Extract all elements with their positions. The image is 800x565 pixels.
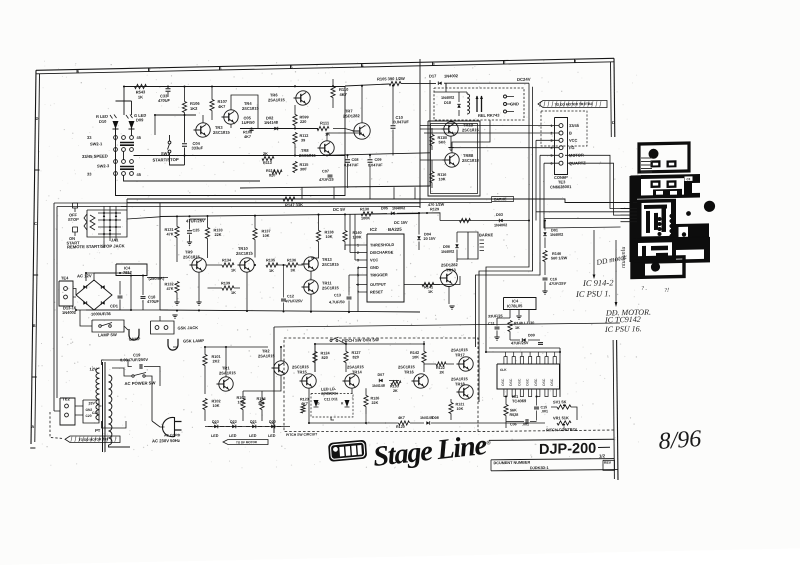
svg-text:1K: 1K	[428, 290, 433, 294]
svg-text:PITCH SW CIRCUIT: PITCH SW CIRCUIT	[286, 432, 318, 437]
svg-text:0.047UF: 0.047UF	[394, 119, 410, 124]
svg-text:SW1: SW1	[161, 151, 170, 156]
svg-text:R114: R114	[266, 169, 276, 173]
transistor TR10 2SC1815	[240, 258, 254, 273]
svg-text:333uF: 333uF	[192, 145, 204, 150]
svg-text:A: A	[31, 424, 34, 429]
svg-text:10K: 10K	[238, 400, 245, 404]
jack spring contact	[84, 214, 87, 230]
svg-text:1N4002: 1N4002	[392, 206, 405, 210]
resistor R131 47K	[175, 226, 179, 237]
wire mid rail y128	[240, 127, 318, 130]
svg-text:C07: C07	[322, 169, 329, 173]
wires into TE3 pins	[420, 123, 559, 129]
resistor R124 820	[313, 351, 317, 362]
led D11 G	[314, 400, 319, 407]
svg-text:TR17: TR17	[455, 352, 466, 357]
svg-text:DC24V: DC24V	[517, 77, 531, 82]
capacitor C33 470UF	[166, 88, 171, 90]
wire x430 column	[429, 80, 431, 186]
resistor R107 4K7	[210, 99, 214, 110]
pcb pads second band	[651, 180, 661, 188]
svg-text:D22: D22	[230, 420, 237, 424]
LED row D23 D22 D21 D20	[205, 425, 290, 429]
svg-text:GSK JACK: GSK JACK	[178, 325, 199, 330]
svg-text:R134: R134	[222, 258, 232, 262]
connector TE4 body	[59, 281, 73, 307]
svg-text:0.047UF: 0.047UF	[344, 163, 359, 167]
svg-text:47K: 47K	[167, 287, 174, 291]
svg-text:GND: GND	[370, 265, 379, 270]
svg-text:1K2: 1K2	[190, 106, 198, 111]
svg-text:47UF/25V: 47UF/25V	[511, 340, 529, 345]
resistor R103 10K	[241, 398, 245, 409]
wires TE2	[75, 405, 83, 407]
svg-text:TR14: TR14	[352, 369, 363, 374]
resistor R115 300	[293, 161, 297, 172]
pcb label c3 white	[685, 176, 693, 181]
dashed box around connector labels	[541, 110, 587, 147]
resistor R141 1K	[422, 282, 434, 287]
diode D08 1N4148	[426, 421, 429, 424]
transistor TR4 top right of TR3	[224, 110, 238, 125]
pcb blob top frame	[639, 143, 689, 172]
capacitor C15 .001	[534, 406, 539, 408]
svg-text:12V: 12V	[89, 366, 96, 371]
svg-text:OSC: OSC	[534, 378, 538, 386]
svg-text:2SA1015: 2SA1015	[268, 97, 285, 102]
svg-text:4: 4	[551, 146, 553, 150]
transistor TR8B 2SC1818	[445, 153, 459, 168]
svg-text:CLK: CLK	[500, 368, 507, 372]
dashed wire to motor banner	[50, 412, 64, 439]
svg-text:R120: R120	[396, 425, 405, 429]
wire bundle to pcb lines	[536, 210, 621, 214]
IC1 TC4069 box	[497, 363, 560, 391]
wire TR2 transistor	[274, 361, 288, 376]
svg-text:C06: C06	[510, 422, 517, 426]
svg-text:R136: R136	[287, 258, 296, 262]
svg-text:C13: C13	[334, 293, 341, 297]
svg-text:4K7: 4K7	[218, 104, 226, 109]
svg-text:IC78L05: IC78L05	[507, 303, 523, 308]
wire speed row to right	[134, 151, 346, 160]
resistor R139 1K	[222, 286, 234, 291]
wire TR8B collector to box	[452, 120, 490, 153]
svg-text:100K: 100K	[361, 216, 370, 220]
wire out of IC4 to right	[147, 276, 168, 279]
resistor R134 1K	[222, 263, 234, 268]
svg-text:C09: C09	[375, 158, 382, 162]
svg-text:DJP-200: DJP-200	[539, 441, 596, 458]
pcb right notch second band	[692, 183, 700, 193]
border frame left inner	[35, 74, 40, 442]
relay terminals	[504, 95, 507, 98]
transistor TR17 2SA1015	[459, 357, 473, 372]
transistor TR18 2SA1015	[459, 385, 473, 400]
svg-text:TE4: TE4	[61, 275, 69, 280]
resistor R543	[135, 84, 147, 89]
pcb via column	[669, 214, 673, 218]
svg-text:R528: R528	[510, 413, 519, 417]
svg-text:2SC1815: 2SC1815	[242, 106, 259, 111]
resistor R127 820	[344, 351, 348, 362]
svg-text:REL RK743: REL RK743	[478, 113, 500, 118]
transistor TR8 2SC1815	[320, 141, 334, 156]
svg-text:3K: 3K	[291, 268, 296, 272]
wire ground rail y310	[76, 308, 168, 312]
svg-text:CD1: CD1	[110, 303, 119, 308]
svg-text:AC CORD: AC CORD	[164, 433, 181, 437]
svg-text:R127: R127	[352, 351, 361, 355]
svg-text:LED: LED	[229, 434, 237, 438]
switch SW1 start/stop	[168, 141, 171, 144]
svg-text:TR15: TR15	[297, 369, 308, 374]
Stage Line logo icon	[328, 440, 367, 462]
svg-text:2SC1815: 2SC1815	[213, 130, 230, 135]
svg-text:R121: R121	[456, 402, 465, 406]
pcb feed lines from schematic	[544, 218, 621, 228]
svg-text:DCUMENT NUMBER: DCUMENT NUMBER	[493, 461, 530, 466]
resistor R116 10K	[430, 171, 434, 182]
wire top rail of start block	[124, 82, 345, 91]
svg-text:IC2: IC2	[370, 227, 377, 232]
svg-text:R111: R111	[320, 120, 330, 125]
svg-text:2SC1815: 2SC1815	[322, 262, 339, 267]
capacitor C04 333uF	[182, 143, 187, 145]
svg-text:1UF/50: 1UF/50	[242, 120, 256, 125]
transformer secondary coil	[109, 375, 112, 445]
svg-text:4K7: 4K7	[398, 416, 405, 420]
svg-text:1K: 1K	[138, 94, 143, 99]
wire bundle staircase	[486, 199, 529, 352]
svg-text:R129: R129	[430, 207, 439, 211]
svg-text:LED: LED	[268, 434, 276, 438]
title dash right	[598, 446, 610, 448]
wire bottom rail y188	[240, 184, 430, 190]
pcb trace fan top-left	[641, 157, 652, 159]
diode D07 1N4148	[379, 379, 382, 382]
svg-text:2K: 2K	[263, 152, 268, 156]
junction dots on rails	[123, 85, 125, 87]
svg-text:D08: D08	[432, 416, 439, 420]
svg-text:2: 2	[503, 61, 505, 65]
svg-text:.001: .001	[522, 422, 529, 426]
svg-text:5: 5	[551, 154, 553, 158]
resistor R132 47K	[175, 281, 179, 292]
svg-text:JA1: JA1	[111, 237, 119, 242]
GSK LAMP symbol	[168, 339, 178, 350]
svg-text:1N4002: 1N4002	[441, 250, 454, 254]
wire jack to right rails	[127, 197, 420, 209]
resistor R138 10K	[316, 230, 320, 241]
svg-text:R124: R124	[321, 351, 331, 355]
svg-text:PT: PT	[95, 428, 101, 433]
svg-text:45: 45	[137, 172, 142, 177]
resistor R106 1K2	[182, 101, 186, 112]
svg-text:D09: D09	[528, 333, 535, 337]
svg-text:47UF/25: 47UF/25	[318, 178, 334, 182]
svg-text:3: 3	[432, 62, 434, 66]
relay contact arrows	[476, 96, 478, 112]
IC4 7812 box	[116, 263, 147, 276]
svg-text:1K: 1K	[325, 131, 330, 136]
zener D04	[417, 236, 420, 240]
capacitor C16 47UF/25V	[543, 277, 548, 279]
resistor R110 4K7	[331, 86, 335, 97]
wire box around speed block	[116, 87, 346, 201]
jack junction dots	[103, 212, 105, 214]
resistor R114 820	[272, 170, 282, 175]
svg-text:1N4002: 1N4002	[444, 73, 459, 78]
svg-text:D05: D05	[381, 206, 388, 210]
svg-text:R104: R104	[257, 397, 267, 401]
svg-text:1N4002: 1N4002	[62, 310, 77, 315]
title block bottom line	[491, 468, 618, 472]
svg-text:8/96: 8/96	[658, 426, 702, 455]
transformer core	[102, 362, 104, 452]
resistor R120 4K7	[399, 421, 410, 426]
svg-text:OUTPUT: OUTPUT	[370, 282, 387, 287]
svg-text:47UF/25V: 47UF/25V	[548, 282, 567, 286]
resistor R147 33K	[283, 197, 295, 202]
capacitor C07 47UF/25	[328, 174, 333, 176]
svg-text:START/STOP: START/STOP	[153, 157, 179, 163]
svg-text:33: 33	[87, 171, 92, 176]
svg-text:OSC: OSC	[517, 378, 521, 386]
svg-text:2SA1015: 2SA1015	[258, 353, 275, 358]
label BARKE boxed	[492, 196, 514, 202]
svg-text:R148 LJ130: R148 LJ130	[514, 321, 534, 325]
svg-text:300: 300	[300, 167, 306, 171]
IC1 pin stubs bottom	[504, 389, 507, 397]
wire TR1B base	[420, 128, 442, 131]
resistor R112 39	[293, 132, 297, 143]
resistor R122 2K	[436, 362, 446, 367]
svg-text:2SD1282: 2SD1282	[343, 113, 360, 118]
transistor TR16 2SC1815	[414, 374, 428, 389]
pcb mounting hole top	[649, 149, 659, 159]
switch AC POWER SW	[132, 375, 134, 377]
svg-text:1N4148: 1N4148	[264, 120, 279, 125]
border frame right inner	[610, 62, 613, 137]
resistor R113 2K	[262, 156, 274, 161]
svg-text:C21: C21	[92, 411, 98, 415]
svg-text:?!: ?!	[664, 288, 669, 294]
wire DC24V drop	[445, 83, 447, 88]
svg-text:1/2: 1/2	[599, 453, 606, 458]
GSK JACK box	[151, 321, 175, 335]
dashed sub box leds	[311, 393, 353, 418]
svg-text:2SC1815: 2SC1815	[183, 254, 200, 259]
svg-text:45: 45	[137, 135, 142, 140]
svg-text:OSC: OSC	[550, 378, 554, 386]
svg-text:TR13: TR13	[446, 267, 457, 272]
svg-text:CN6628001: CN6628001	[550, 184, 572, 189]
svg-text:1: 1	[574, 59, 576, 63]
wire TR1B emitter gnd	[450, 136, 452, 147]
svg-text:RESET: RESET	[370, 289, 384, 294]
svg-text:VR1 51K: VR1 51K	[553, 415, 569, 420]
svg-text:DISCHARGE: DISCHARGE	[370, 250, 394, 255]
svg-text:2SC1815: 2SC1815	[462, 127, 479, 132]
svg-text:R131: R131	[165, 228, 174, 232]
relay coil	[467, 94, 470, 114]
pcb bottom band traces	[642, 246, 646, 259]
svg-text:33V: 33V	[89, 401, 96, 405]
svg-text:? .: ? .	[641, 286, 647, 292]
wire TR9 emitter	[198, 272, 200, 302]
wire AC primary loop	[102, 359, 132, 367]
svg-text:2SC1815: 2SC1815	[322, 285, 339, 290]
svg-text:C3: C3	[687, 177, 691, 181]
TE2 aux box	[83, 400, 99, 424]
pcb left vertical bar	[630, 176, 638, 262]
pcb bottom tab corner square	[631, 263, 646, 278]
led D11 R	[345, 400, 350, 407]
border frame right outer	[613, 58, 616, 137]
svg-text:33/45 SPEED: 33/45 SPEED	[82, 153, 108, 159]
svg-text:R112: R112	[300, 134, 309, 138]
capacitor C06 .001 bottom	[525, 419, 527, 424]
svg-text:THRESHOLD: THRESHOLD	[370, 242, 394, 248]
pcb bottom band	[632, 237, 710, 264]
svg-text:GSK LAMP: GSK LAMP	[183, 338, 204, 343]
REV box	[603, 460, 615, 470]
svg-text:4.7UF/50: 4.7UF/50	[329, 300, 345, 304]
resistor R102 10K	[203, 398, 207, 409]
wire jack middle to oscillator rail	[127, 217, 160, 219]
svg-text:D10: D10	[99, 119, 107, 124]
svg-text:VCC: VCC	[569, 138, 578, 143]
wire jack left column down	[53, 203, 55, 411]
wires to IC2 pins	[345, 244, 361, 247]
svg-text:1K: 1K	[515, 326, 520, 330]
svg-text:AC POWER SW: AC POWER SW	[124, 380, 155, 386]
lamp symbol	[129, 329, 139, 340]
svg-text:33/45: 33/45	[569, 123, 580, 128]
svg-text:D: D	[612, 120, 615, 125]
svg-text:20 15V: 20 15V	[423, 237, 436, 241]
svg-text:R130: R130	[360, 207, 369, 211]
svg-text:D18: D18	[444, 101, 451, 105]
banner TO DD MOTOR TB3	[65, 435, 120, 444]
wire step to right	[127, 188, 633, 213]
svg-text:IC TC9142: IC TC9142	[604, 315, 641, 325]
resistor R11B 5K6	[430, 134, 434, 145]
svg-text:300: 300	[258, 401, 264, 405]
wire oscillator bottom rail	[160, 305, 420, 318]
wire bridge to IC4	[94, 272, 131, 281]
pcb second band	[631, 174, 701, 199]
svg-text:D23: D23	[212, 420, 219, 424]
svg-text:C20: C20	[86, 414, 92, 418]
svg-text:R132: R132	[165, 282, 174, 286]
wire TR3 collector up	[202, 115, 204, 123]
svg-text:1N4002: 1N4002	[494, 223, 507, 227]
svg-text:2K2: 2K2	[213, 359, 220, 363]
svg-text:5: 5	[290, 65, 292, 69]
svg-text:10K: 10K	[412, 355, 419, 359]
svg-text:LAMP SW: LAMP SW	[98, 332, 117, 337]
capacitor C18 470UF	[141, 295, 146, 297]
svg-text:R103: R103	[237, 396, 246, 400]
IC4 IC78L05 box	[504, 297, 537, 310]
svg-text:R115: R115	[300, 163, 309, 167]
wire base rail TR3	[155, 114, 196, 116]
resistor R136 3K	[286, 263, 298, 268]
jack spring zigzag	[90, 215, 95, 230]
box around TR1B TR8B	[428, 120, 480, 197]
svg-text:LAMP: LAMP	[129, 336, 141, 341]
svg-text:10K: 10K	[326, 235, 333, 239]
resistor R121 10K	[449, 402, 453, 413]
svg-text:R147 33K: R147 33K	[285, 202, 303, 207]
svg-text:D17: D17	[429, 73, 437, 78]
pcb dot small	[686, 211, 691, 216]
resistor R111 1K	[317, 126, 329, 131]
svg-text:SW2-1: SW2-1	[90, 141, 103, 146]
svg-text:IC 914-2: IC 914-2	[582, 277, 614, 288]
switch pitch sw ovr	[330, 339, 332, 341]
title block mid line	[491, 457, 614, 461]
wire bundle vertical from connector	[535, 140, 537, 199]
svg-text:R133: R133	[390, 384, 399, 388]
resistor R135 1K	[266, 263, 278, 268]
svg-text:GND: GND	[510, 101, 519, 106]
svg-text:VCC: VCC	[370, 257, 378, 262]
bridge rectifier D13-16	[76, 280, 112, 311]
dashed box PITCH SW	[284, 334, 478, 436]
wire relay to rails	[434, 91, 467, 92]
svg-text:2K: 2K	[440, 370, 445, 374]
handwriting arrow down 2	[615, 240, 617, 303]
diode D05 1N4002	[391, 212, 394, 215]
pcb mid traces region	[637, 199, 676, 240]
relay dashed enclosure	[434, 86, 524, 122]
wire TR13 emitter ground	[448, 287, 450, 304]
resistor R137 10K	[253, 228, 257, 239]
pcb hatched chip	[691, 237, 706, 248]
capacitor C08 0.047UF	[345, 159, 350, 161]
svg-text:470 1/2W: 470 1/2W	[428, 203, 445, 207]
wire 12V rail	[86, 272, 116, 281]
svg-text:1K: 1K	[269, 269, 274, 273]
wire gsk	[159, 316, 161, 321]
svg-text:C11: C11	[488, 322, 495, 326]
svg-text:ntuqunlu: ntuqunlu	[621, 247, 627, 268]
svg-text:10K: 10K	[439, 177, 446, 181]
wire right of IC1	[559, 348, 561, 397]
svg-text:4K7: 4K7	[340, 92, 348, 97]
svg-text:6: 6	[219, 67, 221, 71]
svg-text:1N4002: 1N4002	[550, 233, 563, 237]
svg-text:D21: D21	[250, 420, 257, 424]
svg-text:C11 D11: C11 D11	[324, 397, 338, 401]
svg-text:(250mA): (250mA)	[149, 276, 165, 281]
pcb big dot right	[704, 201, 715, 212]
svg-text:7812: 7812	[123, 270, 133, 275]
capacitor C10 0.047UF	[391, 125, 396, 127]
svg-text:220: 220	[300, 120, 306, 124]
svg-text:1K: 1K	[231, 291, 236, 295]
lamp switch box	[92, 319, 124, 332]
svg-text:10K: 10K	[263, 234, 270, 238]
svg-text:LED: LED	[249, 434, 257, 438]
svg-text:R139: R139	[221, 281, 230, 285]
IC2 pin stubs	[361, 244, 367, 246]
svg-text:2SC1815: 2SC1815	[299, 153, 316, 158]
